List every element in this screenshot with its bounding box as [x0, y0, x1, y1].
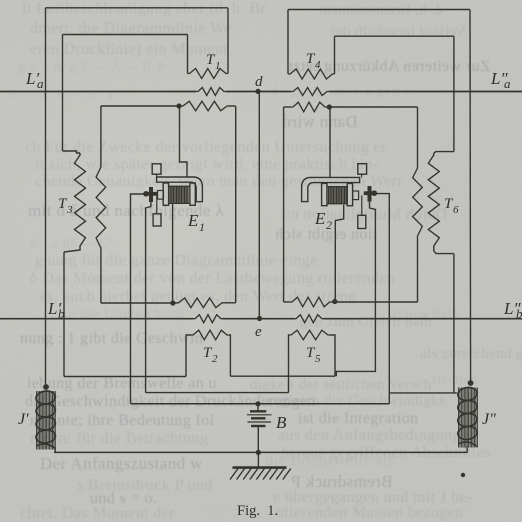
wire T5 right lead: [330, 335, 335, 376]
wire line La left segment: [0, 91, 196, 93]
wire line La right segment: [329, 91, 522, 93]
wire left inner loop bottom right segment: [224, 302, 236, 304]
wire right branch vertical upper: [453, 36, 455, 151]
svg-text:2: 2: [326, 218, 332, 232]
wire T5 left lead: [288, 335, 291, 393]
resistor on line Lb right of node e: [294, 315, 324, 323]
wire E2 armature lead right and down: [376, 194, 389, 404]
wire battery top stub: [257, 404, 259, 411]
wire J-prime bottom lead: [54, 449, 57, 453]
wire right branch vertical lower: [453, 254, 455, 393]
wire T2 right lead: [229, 335, 230, 376]
wire left branch vertical lower: [63, 252, 65, 377]
wire left inner loop left edge lower: [100, 250, 102, 303]
resistor on left inner loop top: [181, 101, 229, 111]
relay coil E1: [157, 177, 203, 205]
svg-text:e: e: [255, 324, 262, 340]
wire T1 step horizontal: [63, 34, 188, 36]
resistor T2: [191, 330, 229, 340]
wire top-left loop top edge: [46, 7, 229, 9]
node d: [255, 89, 260, 94]
wire right inner loop left edge: [283, 107, 285, 302]
resistor in left inner loop left edge: [96, 165, 106, 250]
resistor T4: [288, 69, 335, 79]
wire line La center segment: [226, 91, 291, 93]
node J-prime top junction: [43, 384, 49, 390]
relay coil E2: [302, 177, 360, 205]
node left inner bottom junction: [170, 300, 175, 305]
wire left inner loop top edge: [101, 105, 181, 107]
wire line Lb center segment: [223, 318, 294, 320]
node right inner bottom junction: [332, 299, 337, 304]
resistor T6: [428, 153, 439, 248]
wire right inner loop top edge: [327, 106, 418, 108]
svg-text:J′: J′: [18, 411, 29, 428]
wire E1 armature lead left and down: [131, 194, 145, 404]
wire E2 top lead: [329, 107, 331, 177]
svg-text:E: E: [187, 211, 199, 230]
upper contact of E1: [152, 164, 161, 177]
wire T2 left lead: [186, 335, 191, 377]
wire ground stub: [257, 452, 259, 467]
label E2: [314, 209, 332, 232]
label B: [276, 413, 287, 432]
wire E2 contact jog lead: [336, 202, 375, 377]
wire ground rail: [54, 451, 467, 453]
node battery rail junction: [255, 401, 260, 406]
svg-text:b: b: [516, 306, 522, 321]
svg-text:6: 6: [453, 204, 459, 216]
battery B: [247, 411, 272, 426]
wire T1 left lead vertical: [187, 35, 189, 74]
wire left branch vertical upper: [62, 35, 64, 152]
wire line Lb left segment: [0, 318, 193, 320]
wire right bus vertical: [469, 10, 472, 384]
wire T3 top step: [63, 151, 81, 153]
lower contact of E2: [358, 195, 366, 228]
label T4: [306, 51, 321, 71]
wire battery bottom stub: [257, 427, 259, 452]
inductor J-doubleprime: [457, 386, 478, 447]
resistor in right inner loop right edge: [413, 166, 423, 238]
resistor T5: [289, 330, 330, 340]
wire right inner loop bottom left segment: [284, 301, 290, 303]
svg-text:3: 3: [66, 204, 73, 216]
caption Fig. 1.: [237, 503, 278, 519]
wire E1 contact jog lead: [146, 202, 151, 393]
wire right inner loop bottom right segment: [332, 301, 418, 303]
resistor on line La left of node d: [196, 88, 226, 96]
resistor on line Lb left of node e: [193, 315, 223, 323]
wire left inner loop bottom left segment: [101, 302, 177, 304]
wire T4 step horizontal: [335, 35, 454, 37]
svg-text:1: 1: [199, 220, 205, 234]
wire right inner loop right edge upper: [417, 107, 419, 166]
label J-prime: [18, 411, 29, 428]
wire E2 coil bottom lead: [335, 205, 343, 302]
node e: [257, 316, 262, 321]
armature of E2: [364, 186, 377, 202]
wire top-right loop left vertical: [287, 10, 289, 75]
label T2: [203, 345, 218, 365]
resistor T3: [75, 153, 86, 248]
label T5: [306, 345, 321, 365]
wire left inner loop left edge upper: [100, 106, 102, 165]
wire middle horizontal: [146, 392, 289, 394]
label L''a: [490, 69, 511, 91]
lower contact of E1: [153, 196, 161, 226]
armature of E1: [143, 187, 157, 202]
wire top-left loop right vertical: [227, 8, 229, 74]
wire T3 bottom step: [64, 248, 80, 252]
label L'a: [25, 69, 44, 91]
svg-text:B: B: [276, 413, 287, 432]
wire J-doubleprime bottom lead: [466, 447, 468, 453]
wire lower-left horizontal: [64, 376, 186, 378]
wire T6 top step: [434, 152, 454, 153]
ink speck: [461, 473, 465, 477]
svg-text:4: 4: [315, 59, 321, 71]
resistor T1: [188, 69, 229, 79]
wire battery rail: [131, 403, 390, 405]
wire right inner loop right edge lower: [417, 238, 419, 302]
node left inner top junction: [176, 103, 181, 108]
svg-text:Fig. 1.: Fig. 1.: [237, 503, 278, 519]
wire E1 top lead: [180, 106, 188, 177]
wire T6 bottom step: [434, 248, 454, 254]
wire T4 right lead vertical: [334, 36, 336, 74]
label d: [255, 74, 263, 90]
svg-text:a: a: [504, 76, 511, 91]
wire left bus vertical: [45, 8, 47, 387]
svg-text:2: 2: [212, 353, 218, 365]
wire right inner loop top left corner: [284, 106, 291, 108]
label T1: [206, 52, 221, 72]
wire center column d to e: [258, 91, 260, 318]
resistor on line La right of node d: [291, 88, 329, 96]
ground: [230, 468, 291, 480]
upper contact of E2: [358, 164, 367, 178]
label L'b: [47, 299, 65, 321]
label L''b: [503, 299, 522, 321]
wire top-right loop top edge: [288, 9, 470, 11]
label T3: [58, 196, 73, 216]
wire U between T2 and T5: [230, 375, 335, 377]
wire lower-right horizontal: [389, 392, 457, 394]
resistor on left inner loop bottom: [177, 298, 225, 308]
wire left inner loop right edge: [235, 106, 237, 303]
svg-text:5: 5: [315, 353, 321, 365]
svg-text:1: 1: [215, 60, 221, 72]
node ground rail junction: [256, 450, 261, 455]
svg-text:d: d: [255, 74, 263, 90]
label T6: [444, 196, 459, 216]
svg-text:a: a: [37, 76, 44, 91]
svg-text:J″: J″: [482, 411, 496, 428]
svg-text:E: E: [314, 209, 326, 228]
resistor on right inner loop top: [291, 102, 327, 112]
resistor on right inner loop bottom: [290, 297, 332, 307]
node right inner top junction: [327, 104, 332, 109]
wire line Lb right segment: [324, 318, 522, 320]
node J-doubleprime top junction: [468, 380, 474, 386]
label E1: [187, 211, 205, 234]
inductor J-prime: [35, 390, 56, 450]
wire E1 coil bottom lead: [172, 203, 174, 303]
label J-doubleprime: [482, 411, 496, 428]
label e: [255, 324, 262, 340]
wire left inner loop top right corner: [229, 105, 236, 107]
